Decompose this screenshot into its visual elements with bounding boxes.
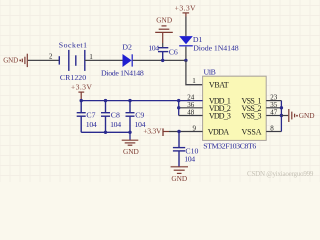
node junction rail C9	[128, 99, 131, 102]
node junction rail C8	[104, 99, 107, 102]
wire bus right	[280, 101, 282, 132]
ground below C9	[129, 132, 131, 140]
node junction bus pin 35	[280, 106, 283, 109]
node junction D1 wire	[184, 59, 187, 62]
wire +3.3V rail to pin 24	[81, 100, 202, 102]
svg-text:C7: C7	[86, 111, 95, 120]
node rail bus junction	[177, 99, 180, 102]
wire junction to pin 1	[186, 60, 203, 84]
ground GND right power port	[281, 115, 288, 117]
node junction bottom rail C8	[104, 131, 107, 134]
svg-text:47: 47	[270, 109, 278, 117]
wire +3.3V to pin 9	[169, 131, 203, 133]
battery Socket1 CR1220	[59, 50, 85, 71]
wire pin 48	[179, 115, 203, 117]
svg-text:D2: D2	[122, 42, 132, 51]
node junction C6 wire	[161, 59, 164, 62]
svg-text:GND: GND	[156, 16, 172, 25]
svg-text:Socket1: Socket1	[59, 40, 87, 49]
wire D1 to junction	[185, 47, 187, 61]
svg-text:2: 2	[49, 54, 53, 61]
svg-text:VSSA: VSSA	[242, 128, 262, 137]
svg-text:104: 104	[184, 154, 195, 163]
svg-text:VSS_3: VSS_3	[242, 112, 262, 121]
wire pin 36	[179, 107, 203, 109]
capacitor C6	[158, 48, 168, 61]
diode D2	[123, 54, 132, 67]
wire GND to battery pin 2	[28, 59, 59, 61]
svg-text:+3.3V: +3.3V	[175, 4, 196, 13]
svg-text:104: 104	[148, 44, 159, 53]
svg-text:+3.3V: +3.3V	[71, 83, 92, 92]
wire battery to D2	[85, 59, 123, 61]
svg-text:Diode 1N4148: Diode 1N4148	[101, 68, 144, 77]
svg-text:C6: C6	[169, 48, 178, 57]
svg-text:104: 104	[86, 120, 97, 129]
node junction C10	[177, 130, 180, 133]
wire gnd to C6	[162, 43, 164, 48]
svg-text:VBAT: VBAT	[209, 81, 229, 90]
ground below C10	[171, 167, 188, 174]
svg-text:104: 104	[110, 120, 121, 129]
svg-text:VDDA: VDDA	[208, 128, 230, 137]
svg-text:48: 48	[187, 109, 195, 117]
wires right pins 23 35 47 8	[266, 100, 281, 102]
capacitor C8	[101, 101, 110, 133]
capacitor C10	[173, 132, 185, 167]
svg-text:C9: C9	[135, 111, 144, 120]
svg-text:STM32F103C8T6: STM32F103C8T6	[203, 141, 256, 150]
node junction bottom rail C9	[128, 131, 131, 134]
node junction bus pin 36	[177, 106, 180, 109]
svg-text:GND: GND	[171, 174, 187, 182]
svg-text:CSDN @yixiaoerguo999: CSDN @yixiaoerguo999	[247, 170, 314, 178]
svg-text:U1B: U1B	[204, 68, 216, 77]
svg-text:+3.3V: +3.3V	[143, 127, 162, 136]
wire bus left	[178, 101, 180, 116]
svg-text:VDD_3: VDD_3	[209, 112, 231, 121]
wire D2 to junction	[133, 59, 186, 61]
svg-text:9: 9	[192, 124, 196, 132]
wire +3.3V to D1	[185, 17, 187, 37]
svg-text:GND: GND	[299, 111, 315, 120]
svg-text:1: 1	[192, 77, 196, 85]
IC U1B STM32F103C8T6	[203, 76, 267, 140]
capacitor C9	[126, 101, 135, 133]
svg-text:GND: GND	[123, 147, 139, 156]
capacitor C7	[77, 101, 86, 133]
svg-text:GND: GND	[3, 57, 18, 65]
wire bottom rail	[81, 131, 130, 133]
diode D1	[179, 36, 193, 44]
svg-text:Diode 1N4148: Diode 1N4148	[193, 44, 239, 53]
svg-text:CR1220: CR1220	[60, 73, 86, 82]
svg-text:8: 8	[270, 124, 274, 132]
svg-text:C8: C8	[111, 111, 120, 120]
node junction bus pin 47	[280, 114, 283, 117]
node junction rail C7	[80, 99, 83, 102]
